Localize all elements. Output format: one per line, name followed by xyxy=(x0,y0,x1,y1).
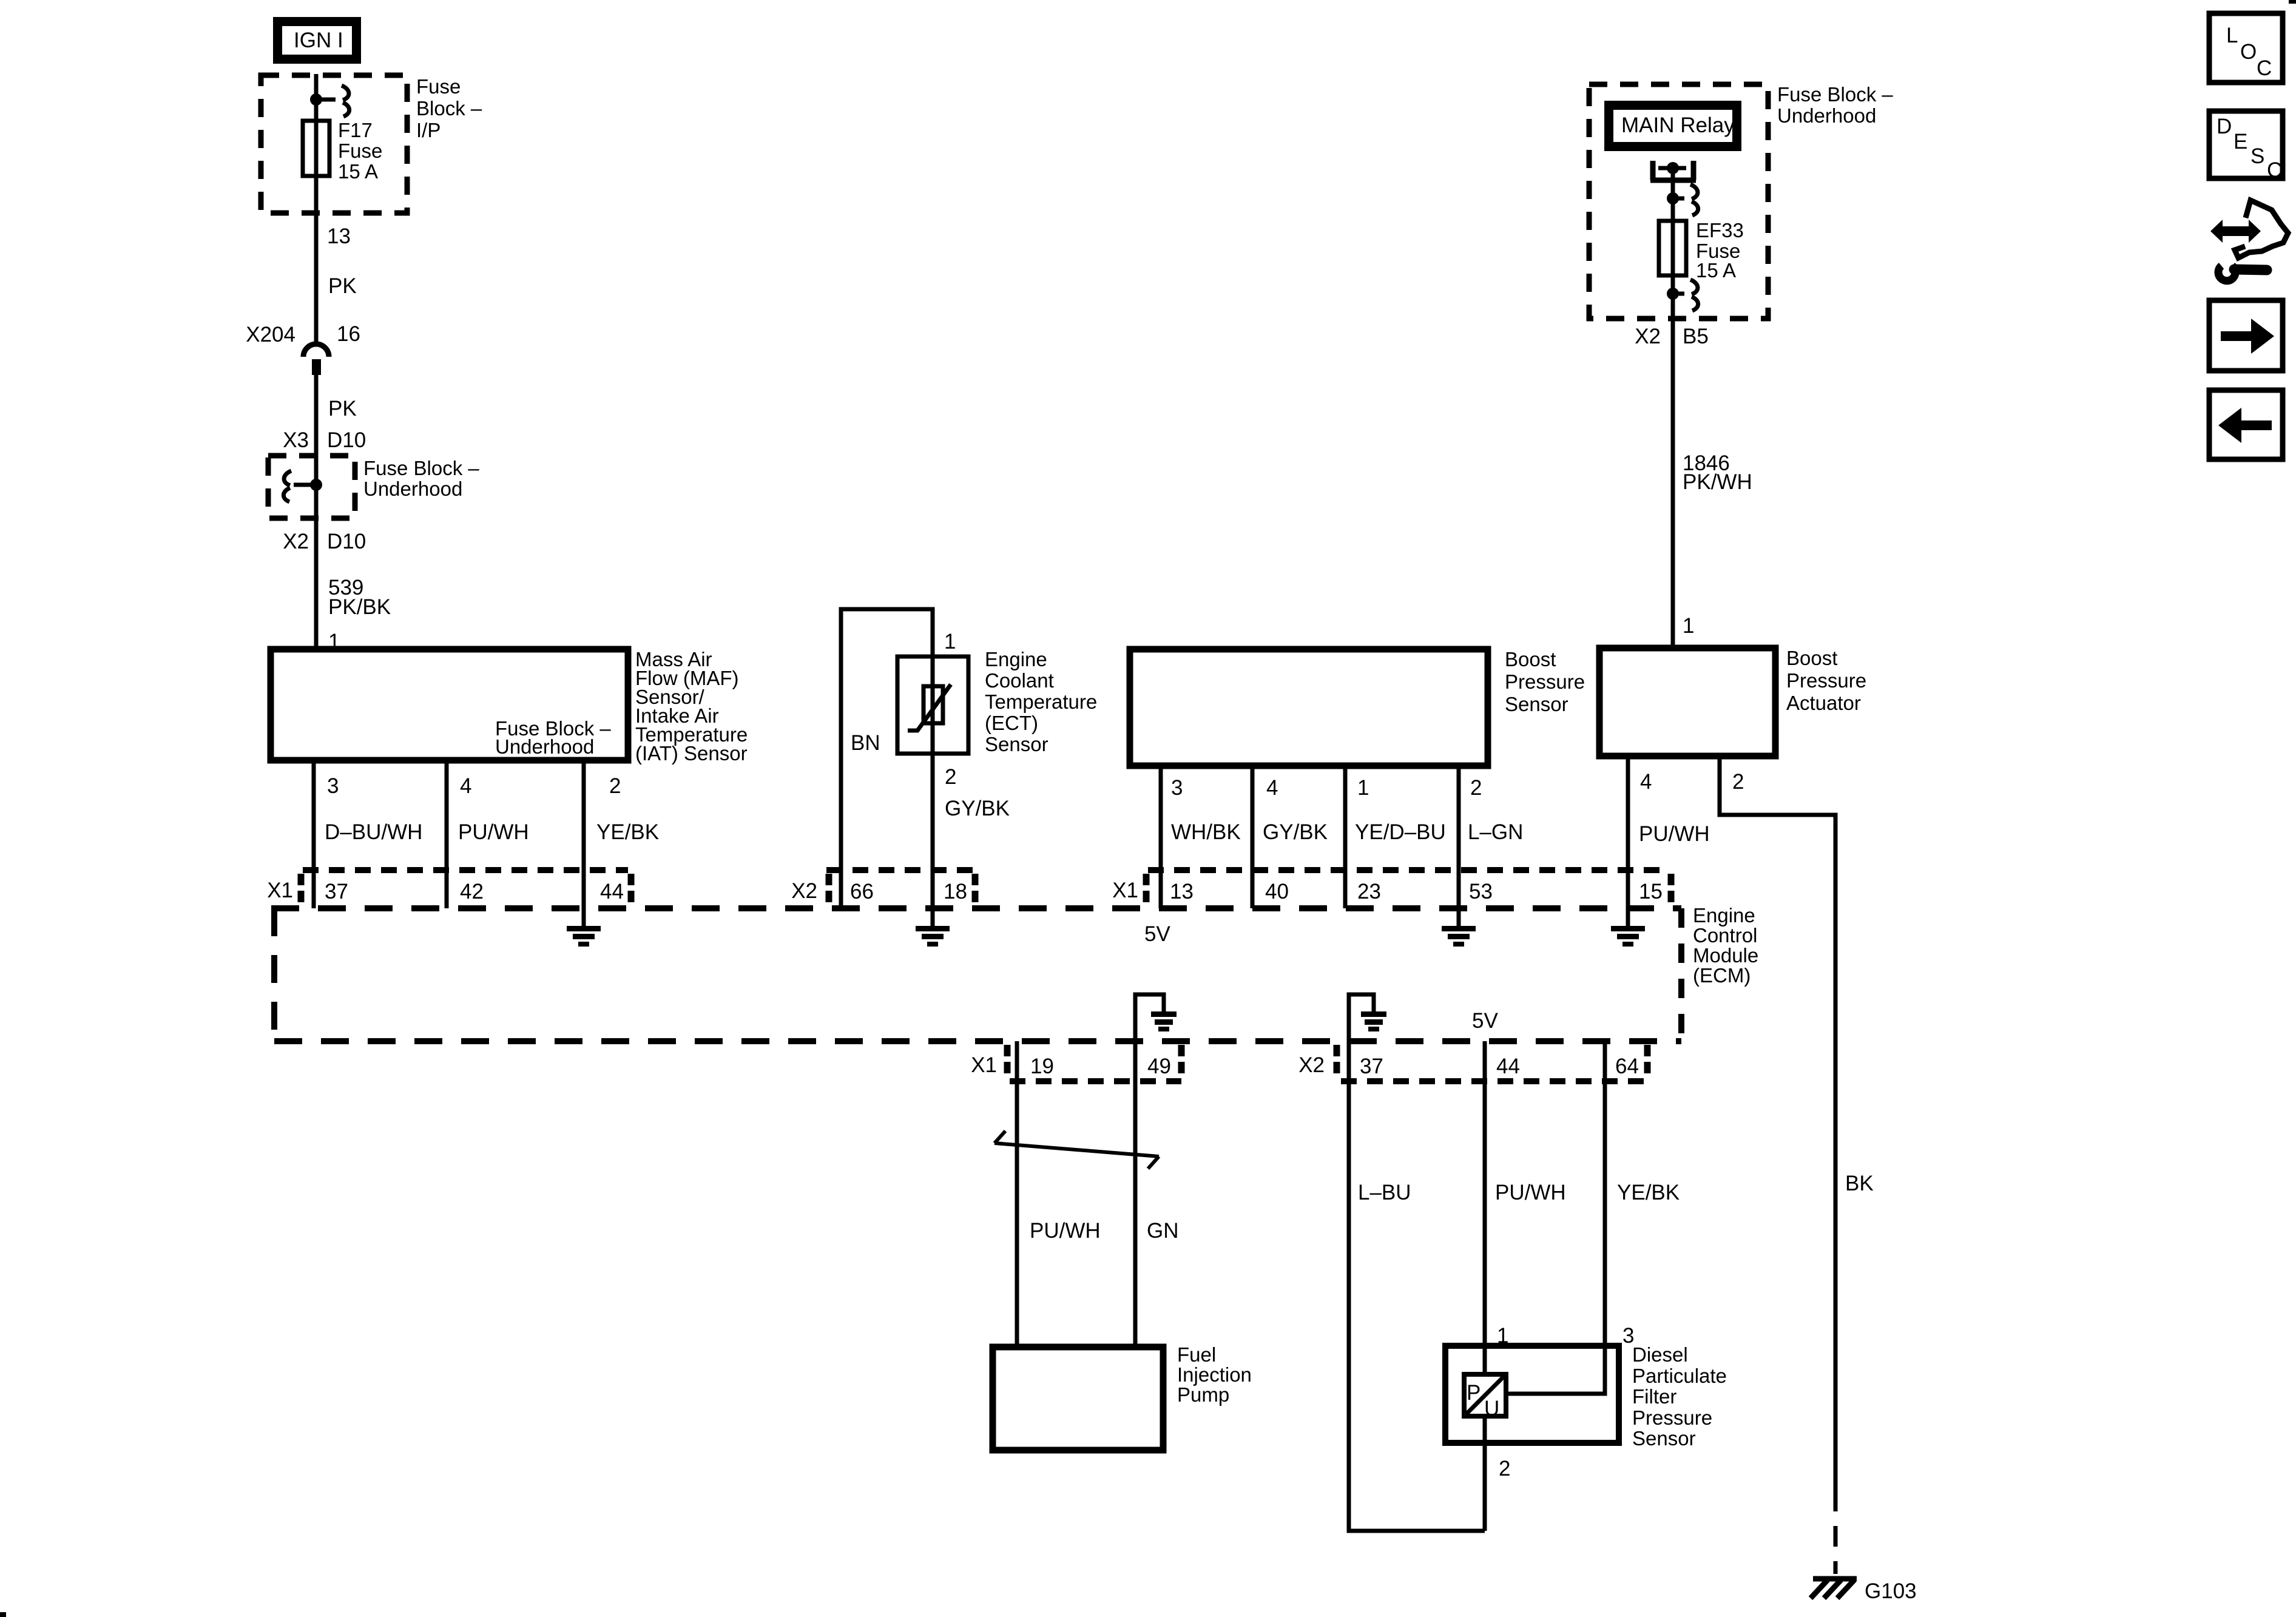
svg-text:WH/BK: WH/BK xyxy=(1171,820,1241,844)
svg-text:4: 4 xyxy=(1266,776,1278,800)
svg-text:X1: X1 xyxy=(267,879,293,902)
svg-text:1: 1 xyxy=(1683,614,1694,638)
svg-text:15: 15 xyxy=(1639,880,1663,903)
fuse block I/P dashed box xyxy=(261,75,407,213)
svg-text:L–BU: L–BU xyxy=(1358,1181,1411,1204)
MAF/IAT sensor box xyxy=(271,649,628,760)
label inside MAF box: Fuse Block - Underhood xyxy=(495,717,611,758)
svg-text:1: 1 xyxy=(944,630,956,653)
terminal symbol in small fuse block xyxy=(283,471,316,502)
svg-text:16: 16 xyxy=(337,322,360,346)
svg-text:64: 64 xyxy=(1615,1055,1639,1078)
svg-text:4: 4 xyxy=(1640,770,1652,794)
wire through fuse F17 xyxy=(314,123,319,342)
svg-text:IGN I: IGN I xyxy=(294,29,343,52)
connector X204 xyxy=(246,322,360,375)
svg-text:Pressure: Pressure xyxy=(1505,670,1585,693)
svg-text:15 A: 15 A xyxy=(338,160,378,183)
svg-text:2: 2 xyxy=(1499,1457,1510,1480)
svg-text:O: O xyxy=(2240,40,2257,64)
svg-text:D10: D10 xyxy=(327,428,366,452)
bracket band3 end xyxy=(1668,874,1675,905)
diesel particulate filter pressure sensor box xyxy=(1445,1346,1619,1443)
svg-text:53: 53 xyxy=(1469,880,1493,903)
bracket X2 bottom xyxy=(1334,1045,1340,1078)
svg-text:U: U xyxy=(1484,1397,1499,1420)
wire MAF pin 2 to ECM 44 ground xyxy=(582,760,586,926)
ECM left boundary dashed xyxy=(271,908,277,1041)
label EF33 Fuse 15 A xyxy=(1696,219,1744,282)
relay terminal pins xyxy=(1650,161,1696,180)
svg-text:YE/BK: YE/BK xyxy=(1617,1181,1680,1204)
bracket bottom band1 end xyxy=(1178,1045,1185,1078)
fuel injection pump box xyxy=(993,1347,1163,1450)
wire 539 PK/BK labels xyxy=(328,576,391,619)
svg-text:PK: PK xyxy=(328,274,357,298)
svg-text:Engine: Engine xyxy=(1693,904,1755,927)
pressure transducer symbol P/U xyxy=(1464,1374,1506,1420)
svg-text:13: 13 xyxy=(327,224,351,248)
svg-text:GY/BK: GY/BK xyxy=(1263,820,1328,844)
svg-text:42: 42 xyxy=(460,880,484,903)
label Fuse Block - I/P xyxy=(416,75,482,141)
svg-text:C: C xyxy=(2267,158,2282,182)
label Fuel Injection Pump xyxy=(1177,1343,1252,1406)
connector labels X2 D10 xyxy=(283,530,366,553)
ECM bottom connector row short dash X2 xyxy=(1341,1078,1646,1084)
svg-text:Injection: Injection xyxy=(1177,1363,1252,1386)
wire ECM 64 YE/BK to DPF pin 3 xyxy=(1506,1041,1605,1394)
icon wrench xyxy=(2218,266,2267,281)
ECM connector row short dash X1 xyxy=(303,867,628,873)
svg-text:4: 4 xyxy=(460,774,471,798)
svg-text:PU/WH: PU/WH xyxy=(1030,1219,1101,1243)
bracket band2 end xyxy=(972,874,979,905)
svg-text:GY/BK: GY/BK xyxy=(945,797,1010,820)
ECT sensor feed loop wire BN xyxy=(841,609,933,926)
svg-text:G103: G103 xyxy=(1865,1579,1917,1603)
svg-text:E: E xyxy=(2234,130,2247,154)
svg-text:YE/D–BU: YE/D–BU xyxy=(1355,820,1446,844)
svg-text:Diesel: Diesel xyxy=(1632,1343,1688,1366)
label Engine Coolant Temperature (ECT) Sensor xyxy=(985,648,1097,755)
svg-text:Pump: Pump xyxy=(1177,1383,1229,1406)
node junction dot in fuse block xyxy=(310,93,322,106)
svg-text:23: 23 xyxy=(1357,880,1381,903)
wire boost sensor pin 3 to ECM 13 xyxy=(1159,766,1163,908)
svg-text:2: 2 xyxy=(1732,770,1744,794)
wire through small fuse block xyxy=(314,456,319,649)
svg-text:19: 19 xyxy=(1030,1055,1054,1078)
bracket X1 xyxy=(298,874,305,905)
relay MAIN Relay xyxy=(1604,101,1741,151)
ECT sensor box xyxy=(897,657,968,754)
svg-text:P: P xyxy=(1467,1381,1481,1405)
svg-text:Fuel: Fuel xyxy=(1177,1343,1216,1366)
label Boost Pressure Sensor xyxy=(1505,648,1585,715)
label Fuse Block - Underhood xyxy=(363,457,479,500)
icon forward arrow box xyxy=(2209,300,2283,371)
ground at ECM pin 15 xyxy=(1611,926,1645,947)
svg-text:37: 37 xyxy=(1360,1055,1383,1078)
svg-text:D10: D10 xyxy=(327,530,366,553)
svg-text:Fuse Block –: Fuse Block – xyxy=(1777,83,1893,106)
bracket bottom band2 end xyxy=(1644,1045,1651,1078)
bracket X2 xyxy=(826,874,832,905)
node junction dot below EF33 xyxy=(1667,288,1679,300)
svg-text:Engine: Engine xyxy=(985,648,1047,670)
connector labels X3 D10 xyxy=(283,428,366,452)
svg-text:PK: PK xyxy=(328,397,357,420)
svg-text:13: 13 xyxy=(1170,880,1194,903)
node junction dot relay output xyxy=(1667,162,1679,174)
svg-text:PU/WH: PU/WH xyxy=(1495,1181,1566,1204)
ECM connector row short dash X2 xyxy=(826,867,976,873)
ECM bottom connector row short dash X1 xyxy=(1010,1078,1181,1084)
svg-text:66: 66 xyxy=(850,880,874,903)
wire boost sensor pin 4 to ECM 40 xyxy=(1251,766,1255,908)
ground at ECM pin 18 xyxy=(916,926,950,947)
terminal symbol above EF33 xyxy=(1673,184,1698,215)
wire MAIN relay to actuator pin 1 xyxy=(1671,168,1675,648)
svg-text:Actuator: Actuator xyxy=(1786,692,1861,714)
svg-text:L: L xyxy=(2226,24,2238,47)
boost pressure actuator box xyxy=(1599,648,1775,756)
svg-text:X1: X1 xyxy=(1112,879,1138,902)
wire label 1846 PK/WH xyxy=(1683,451,1752,494)
svg-text:2: 2 xyxy=(945,765,956,789)
bracket X1 bottom xyxy=(1004,1045,1011,1078)
svg-text:Sensor: Sensor xyxy=(1505,693,1568,715)
svg-text:PK/BK: PK/BK xyxy=(328,595,391,619)
svg-text:Fuse: Fuse xyxy=(338,140,382,162)
wire ECM 44 5V to DPF pin 1 xyxy=(1483,1041,1487,1531)
node junction dot in small fuse block xyxy=(310,479,322,491)
ECM top boundary long dash xyxy=(271,905,1681,911)
svg-text:Sensor: Sensor xyxy=(1632,1427,1696,1450)
ground at ECM pin 44 xyxy=(567,926,601,947)
svg-text:PK/WH: PK/WH xyxy=(1683,470,1752,494)
ECM connector row short dash X1 right xyxy=(1148,867,1670,873)
svg-text:(IAT) Sensor: (IAT) Sensor xyxy=(635,742,748,765)
svg-text:5V: 5V xyxy=(1472,1009,1498,1033)
wire MAF pin 3 to ECM 37 xyxy=(312,760,316,908)
svg-text:Particulate: Particulate xyxy=(1632,1365,1727,1387)
svg-text:49: 49 xyxy=(1147,1055,1171,1078)
wire actuator pin 4 to ECM 15 ground xyxy=(1626,756,1630,926)
svg-text:Underhood: Underhood xyxy=(495,735,594,758)
icon back arrow box xyxy=(2209,390,2283,459)
ground at ECM pin 53 xyxy=(1442,926,1476,947)
bracket band1 end xyxy=(628,874,635,905)
wire ECM 37 L-BU to DPF pin 2 xyxy=(1349,1041,1485,1531)
svg-text:Block –: Block – xyxy=(416,97,482,120)
svg-text:X2: X2 xyxy=(791,879,817,903)
svg-text:PU/WH: PU/WH xyxy=(458,820,529,844)
ground inside ECM above pin 49 xyxy=(1135,994,1177,1041)
svg-text:44: 44 xyxy=(600,880,624,903)
icon DESC box xyxy=(2209,111,2283,182)
svg-text:X2: X2 xyxy=(1298,1053,1325,1077)
wire X204 to underhood fuse block xyxy=(314,375,319,456)
svg-text:Module: Module xyxy=(1693,944,1758,967)
svg-text:3: 3 xyxy=(327,774,339,798)
svg-text:3: 3 xyxy=(1171,776,1183,800)
dashed wire to G103 xyxy=(1834,1491,1838,1574)
wire IGN I to fuse F17 xyxy=(314,74,319,123)
terminal symbol below EF33 xyxy=(1673,280,1698,311)
bracket X1 right xyxy=(1143,874,1150,905)
svg-text:Fuse Block –: Fuse Block – xyxy=(363,457,479,479)
svg-text:D: D xyxy=(2217,115,2232,138)
svg-text:X2: X2 xyxy=(283,530,309,553)
fuse block underhood dashed box right xyxy=(1589,84,1768,319)
ground G103 symbol xyxy=(1811,1579,1857,1598)
svg-text:18: 18 xyxy=(944,880,967,903)
svg-text:Pressure: Pressure xyxy=(1632,1406,1712,1429)
node junction dot above EF33 xyxy=(1667,192,1679,204)
svg-text:(ECM): (ECM) xyxy=(1693,964,1751,987)
svg-text:X2: X2 xyxy=(1635,325,1661,348)
fuse block underhood small dashed box xyxy=(268,456,355,518)
ground inside ECM above pin 37 xyxy=(1349,994,1386,1041)
svg-text:L–GN: L–GN xyxy=(1468,820,1523,844)
svg-text:MAIN Relay: MAIN Relay xyxy=(1621,113,1735,137)
svg-text:Boost: Boost xyxy=(1786,647,1837,669)
label Mass Air Flow (MAF) Sensor / Intake Air Temperature (IAT) Sensor xyxy=(635,648,748,765)
svg-text:B5: B5 xyxy=(1683,325,1709,348)
svg-text:EF33: EF33 xyxy=(1696,219,1744,241)
wire MAF pin 4 to ECM 42 xyxy=(445,760,449,908)
svg-text:I/P: I/P xyxy=(416,119,441,141)
svg-text:Fuse: Fuse xyxy=(416,75,461,98)
connector labels X2 B5 xyxy=(1635,325,1709,348)
icon LOC box xyxy=(2209,13,2283,83)
svg-text:Boost: Boost xyxy=(1505,648,1556,670)
fuse F17 15A xyxy=(303,121,329,176)
wire ECM 49 to fuel pump xyxy=(1133,1041,1138,1347)
power label IGN I xyxy=(273,17,361,64)
icon double arrow xyxy=(2210,220,2261,243)
svg-text:40: 40 xyxy=(1265,880,1289,903)
svg-text:C: C xyxy=(2257,56,2272,80)
wire boost sensor pin 1 to ECM 23 xyxy=(1343,766,1348,908)
svg-text:Underhood: Underhood xyxy=(1777,104,1876,127)
wire ECM 19 to fuel pump xyxy=(1015,1041,1019,1347)
svg-text:Coolant: Coolant xyxy=(985,669,1054,692)
stray mark top right xyxy=(2289,0,2296,4)
label Engine Control Module (ECM) xyxy=(1693,904,1758,987)
icon harness outline xyxy=(2235,200,2288,258)
svg-text:X1: X1 xyxy=(971,1053,997,1077)
thermistor symbol ECT xyxy=(908,684,951,731)
svg-text:15 A: 15 A xyxy=(1696,259,1736,282)
svg-text:BN: BN xyxy=(851,731,880,755)
svg-text:PU/WH: PU/WH xyxy=(1639,822,1710,846)
twisted pair marker xyxy=(994,1131,1159,1169)
boost pressure sensor box xyxy=(1130,649,1488,766)
svg-text:2: 2 xyxy=(609,774,621,798)
ECM bottom boundary dashed xyxy=(274,1038,1681,1044)
ECM right boundary dashed xyxy=(1678,908,1684,1041)
svg-text:1: 1 xyxy=(1357,776,1369,800)
svg-text:S: S xyxy=(2250,144,2264,168)
svg-text:Pressure: Pressure xyxy=(1786,669,1866,692)
svg-text:Filter: Filter xyxy=(1632,1385,1676,1408)
svg-text:D–BU/WH: D–BU/WH xyxy=(325,820,422,844)
svg-text:5V: 5V xyxy=(1144,922,1170,946)
svg-text:Underhood: Underhood xyxy=(363,478,462,500)
label F17 Fuse 15 A xyxy=(338,119,382,183)
svg-text:X3: X3 xyxy=(283,428,309,452)
svg-text:Temperature: Temperature xyxy=(985,690,1097,713)
stray mark bottom left xyxy=(0,1612,6,1617)
svg-text:YE/BK: YE/BK xyxy=(596,820,659,844)
svg-text:(ECT): (ECT) xyxy=(985,712,1038,734)
svg-text:Control: Control xyxy=(1693,924,1757,947)
svg-text:44: 44 xyxy=(1496,1055,1520,1078)
svg-text:X204: X204 xyxy=(246,323,295,346)
label Boost Pressure Actuator xyxy=(1786,647,1866,714)
fuse EF33 15A xyxy=(1659,221,1686,275)
svg-text:37: 37 xyxy=(325,880,348,903)
svg-text:Sensor: Sensor xyxy=(985,733,1048,755)
label Fuse Block - Underhood xyxy=(1777,83,1893,127)
svg-text:GN: GN xyxy=(1147,1219,1179,1243)
wire actuator pin 2 BK to G103 xyxy=(1720,756,1835,1491)
svg-text:BK: BK xyxy=(1845,1172,1874,1195)
label Diesel Particulate Filter Pressure Sensor xyxy=(1632,1343,1727,1450)
terminal symbol at F17 feed xyxy=(316,86,349,116)
wire boost sensor pin 2 to ECM 53 ground xyxy=(1457,766,1461,926)
svg-text:2: 2 xyxy=(1470,776,1482,800)
svg-text:F17: F17 xyxy=(338,119,373,141)
